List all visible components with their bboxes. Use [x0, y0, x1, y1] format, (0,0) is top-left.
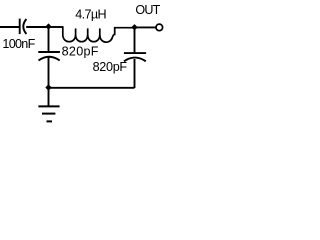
svg-text:820pF: 820pF: [93, 60, 128, 74]
svg-text:100nF: 100nF: [2, 37, 35, 51]
svg-text:4.7µH: 4.7µH: [75, 8, 106, 22]
svg-text:OUT: OUT: [135, 3, 160, 17]
svg-text:820pF: 820pF: [62, 44, 99, 58]
